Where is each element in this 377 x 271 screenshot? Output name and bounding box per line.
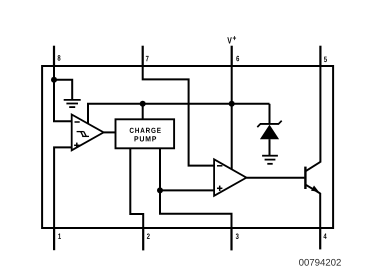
pin 4 label [323, 234, 326, 239]
pin 8 lead [53, 46, 55, 67]
IC boundary box [42, 66, 333, 228]
pin 2 label [147, 233, 150, 238]
transistor Q1 npn [305, 162, 320, 194]
zener diode D1 [257, 121, 281, 155]
op-amp U2 comparator [214, 159, 246, 196]
pin 3 label [236, 233, 239, 239]
pin 6 label [236, 56, 239, 62]
pin 7 label [146, 56, 149, 61]
wire charge pump top stub [142, 104, 144, 120]
pin 6 lead [231, 46, 233, 67]
figure number caption [299, 259, 341, 266]
hysteresis glyph inside U1 [77, 132, 89, 137]
wire node to U2 noninverting input [160, 189, 214, 191]
pin 5 label [324, 57, 327, 62]
wire charge pump to pin 2 [130, 148, 143, 227]
pin 4 lead [319, 227, 321, 249]
pin 2 lead [142, 227, 144, 250]
wire Q1 collector to pin 5 [319, 67, 321, 163]
charge pump block [116, 119, 175, 148]
junction dot pin8/ground tap [51, 77, 57, 83]
V+ supply label [227, 36, 236, 44]
junction dot charge pump output node [157, 187, 163, 193]
pin 5 lead [319, 46, 321, 67]
wire U2 output to Q1 base [246, 177, 304, 179]
wire zener top connection [269, 104, 271, 123]
wire U1 noninverting input to pin 1 [54, 147, 72, 227]
pin 1 lead [53, 227, 55, 250]
wire ground tap [54, 80, 72, 99]
wire pin8 to inverting input of U1 [54, 67, 72, 121]
wire oscillator feedback line [88, 104, 270, 124]
op-amp U1 comparator with hysteresis [72, 115, 104, 151]
wire charge pump output down [159, 148, 161, 190]
wire Q1 emitter to pin 4 [319, 193, 321, 227]
junction dot feedback/V+ line [229, 101, 235, 107]
wire U1 output to charge pump [104, 131, 116, 133]
junction dot feedback/charge-pump top [140, 101, 146, 107]
pin 8 label [58, 55, 61, 61]
ground symbol G1 [64, 100, 81, 107]
ground symbol G2 [262, 156, 278, 164]
pin 1 label [58, 234, 61, 239]
wire node to pin 3 [160, 190, 232, 227]
wire pin 7 to inverting input of U2 [143, 67, 214, 166]
pin 3 lead [230, 227, 232, 250]
pin 7 lead [142, 46, 144, 67]
wire pin 6 V+ rail down to U2 [231, 67, 233, 170]
